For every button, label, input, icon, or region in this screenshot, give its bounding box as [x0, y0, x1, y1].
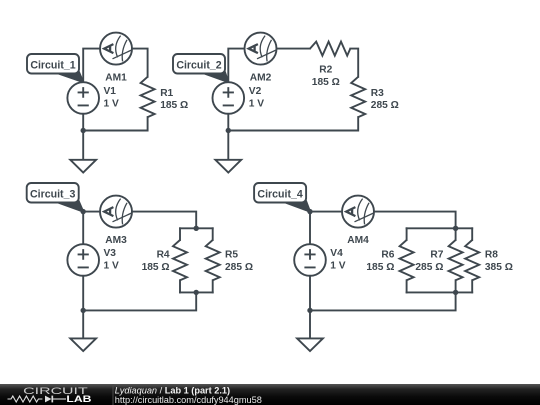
ammeter AM2 — [245, 33, 277, 65]
resistor R8 — [465, 240, 479, 280]
node circuit4 parallel top — [453, 226, 458, 231]
svg-text:LAB: LAB — [66, 393, 91, 404]
wire R3 bottom to node — [228, 117, 358, 130]
wire V3 top to ammeter AM3 left — [83, 212, 100, 245]
wire R7 top stub — [455, 228, 457, 240]
wire to ground circuit2 — [227, 131, 229, 160]
svg-text:AM2: AM2 — [250, 72, 272, 83]
voltage source V4 — [294, 244, 326, 276]
wire to ground circuit3 — [82, 310, 84, 338]
svg-text:R2: R2 — [319, 65, 332, 76]
wire AM4 right to parallel top node — [374, 212, 456, 229]
ground circuit4 — [297, 338, 323, 351]
wire AM3 right to parallel top node — [132, 212, 196, 229]
svg-text:285 Ω: 285 Ω — [225, 262, 253, 273]
svg-text:AM4: AM4 — [347, 235, 369, 246]
wire parallel bottom to V3 bottom — [83, 292, 196, 310]
wire R7 bottom stub — [455, 280, 457, 292]
svg-text:285 Ω: 285 Ω — [415, 262, 443, 273]
ground circuit1 — [70, 160, 96, 173]
wire R6 bottom stub — [406, 280, 408, 292]
svg-text:V2: V2 — [249, 86, 262, 97]
ammeter AM4 — [342, 196, 374, 228]
resistor R5 — [206, 240, 220, 280]
svg-text:AM3: AM3 — [105, 235, 127, 246]
wire V2 bottom to ground node — [227, 114, 229, 131]
ground circuit2 — [215, 160, 241, 173]
svg-text:Circuit_1: Circuit_1 — [30, 60, 75, 72]
svg-text:R1: R1 — [160, 88, 173, 99]
svg-text:1 V: 1 V — [104, 260, 119, 271]
wire R2 right to R3 top — [350, 49, 358, 77]
resistor R4 — [173, 240, 187, 280]
node circuit3 top-left corner — [81, 209, 86, 214]
node circuit4 ground junction — [307, 308, 312, 313]
label flag Circuit_2 — [173, 54, 228, 82]
resistor R1 — [141, 77, 155, 117]
wire R8 bottom stub — [471, 280, 473, 292]
svg-text:R4: R4 — [157, 250, 170, 261]
wire R4 bottom stub — [179, 280, 181, 292]
ammeter AM1 — [100, 33, 132, 65]
node circuit3 parallel top — [194, 226, 199, 231]
svg-text:R5: R5 — [225, 250, 238, 261]
wire V3 bottom to ground node — [82, 276, 84, 311]
resistor R2 — [310, 42, 350, 56]
CircuitLab logo resistor zigzag — [8, 396, 43, 402]
resistor R6 — [400, 240, 414, 280]
voltage source V3 — [67, 244, 99, 276]
CircuitLab logo diode symbol — [45, 396, 52, 403]
node circuit3 ground junction — [81, 308, 86, 313]
voltage source V1 — [67, 82, 99, 114]
svg-text:V4: V4 — [330, 248, 343, 259]
label flag Circuit_4 — [254, 183, 310, 212]
node circuit4 parallel bottom — [453, 290, 458, 295]
svg-text:185 Ω: 185 Ω — [312, 77, 340, 88]
resistor R7 — [449, 240, 463, 280]
svg-text:R3: R3 — [371, 88, 384, 99]
svg-text:1 V: 1 V — [104, 98, 119, 109]
wire AM1 right to R1 top — [132, 49, 148, 77]
svg-text:Circuit_4: Circuit_4 — [257, 189, 302, 201]
svg-text:http://circuitlab.com/cdufy944: http://circuitlab.com/cdufy944gmu58 — [115, 395, 262, 405]
wire R6 top stub — [406, 228, 408, 240]
svg-text:R8: R8 — [485, 250, 498, 261]
wire R5 top stub — [212, 228, 214, 240]
svg-text:385 Ω: 385 Ω — [485, 262, 513, 273]
ground circuit3 — [70, 338, 96, 351]
node circuit4 top-left corner — [307, 209, 312, 214]
wire parallel bottom to V4 bottom — [310, 292, 456, 310]
svg-text:185 Ω: 185 Ω — [366, 262, 394, 273]
svg-text:1 V: 1 V — [330, 260, 345, 271]
svg-text:R6: R6 — [381, 250, 394, 261]
svg-text:285 Ω: 285 Ω — [371, 100, 399, 111]
wire R5 bottom stub — [212, 280, 214, 292]
node circuit2 ground junction — [226, 128, 231, 133]
wire V1 top to ammeter AM1 left — [83, 49, 100, 83]
svg-text:V3: V3 — [104, 248, 117, 259]
wire AM2 right to R2 left — [277, 48, 311, 50]
wire V4 top to ammeter AM4 left — [310, 212, 342, 245]
wire to ground circuit1 — [82, 131, 84, 160]
svg-text:V1: V1 — [104, 86, 117, 97]
label flag Circuit_1 — [27, 54, 83, 82]
wire to ground circuit4 — [309, 310, 311, 338]
wire parallel top bar circuit4 — [407, 227, 473, 229]
svg-text:185 Ω: 185 Ω — [160, 100, 188, 111]
footer separator line — [112, 384, 114, 405]
wire R4 top stub — [179, 228, 181, 240]
svg-text:Circuit_2: Circuit_2 — [176, 60, 221, 72]
wire R8 top stub — [471, 228, 473, 240]
svg-text:R7: R7 — [430, 250, 443, 261]
svg-text:AM1: AM1 — [105, 72, 127, 83]
ammeter AM3 — [100, 196, 132, 228]
voltage source V2 — [213, 82, 245, 114]
wire parallel bottom bar circuit3 — [180, 291, 213, 293]
wire V2 top to ammeter AM2 left — [228, 49, 244, 83]
resistor R3 — [351, 77, 365, 117]
svg-text:Circuit_3: Circuit_3 — [30, 189, 75, 201]
wire parallel bottom bar circuit4 — [407, 291, 473, 293]
label flag Circuit_3 — [27, 183, 83, 212]
wire parallel top bar circuit3 — [180, 227, 213, 229]
node circuit1 ground junction — [81, 128, 86, 133]
svg-text:1 V: 1 V — [249, 98, 264, 109]
wire V4 bottom to ground node — [309, 276, 311, 311]
wire R1 bottom to node — [83, 117, 147, 130]
svg-text:185 Ω: 185 Ω — [142, 262, 170, 273]
wire V1 bottom to ground node — [82, 114, 84, 131]
node circuit3 parallel bottom — [194, 290, 199, 295]
